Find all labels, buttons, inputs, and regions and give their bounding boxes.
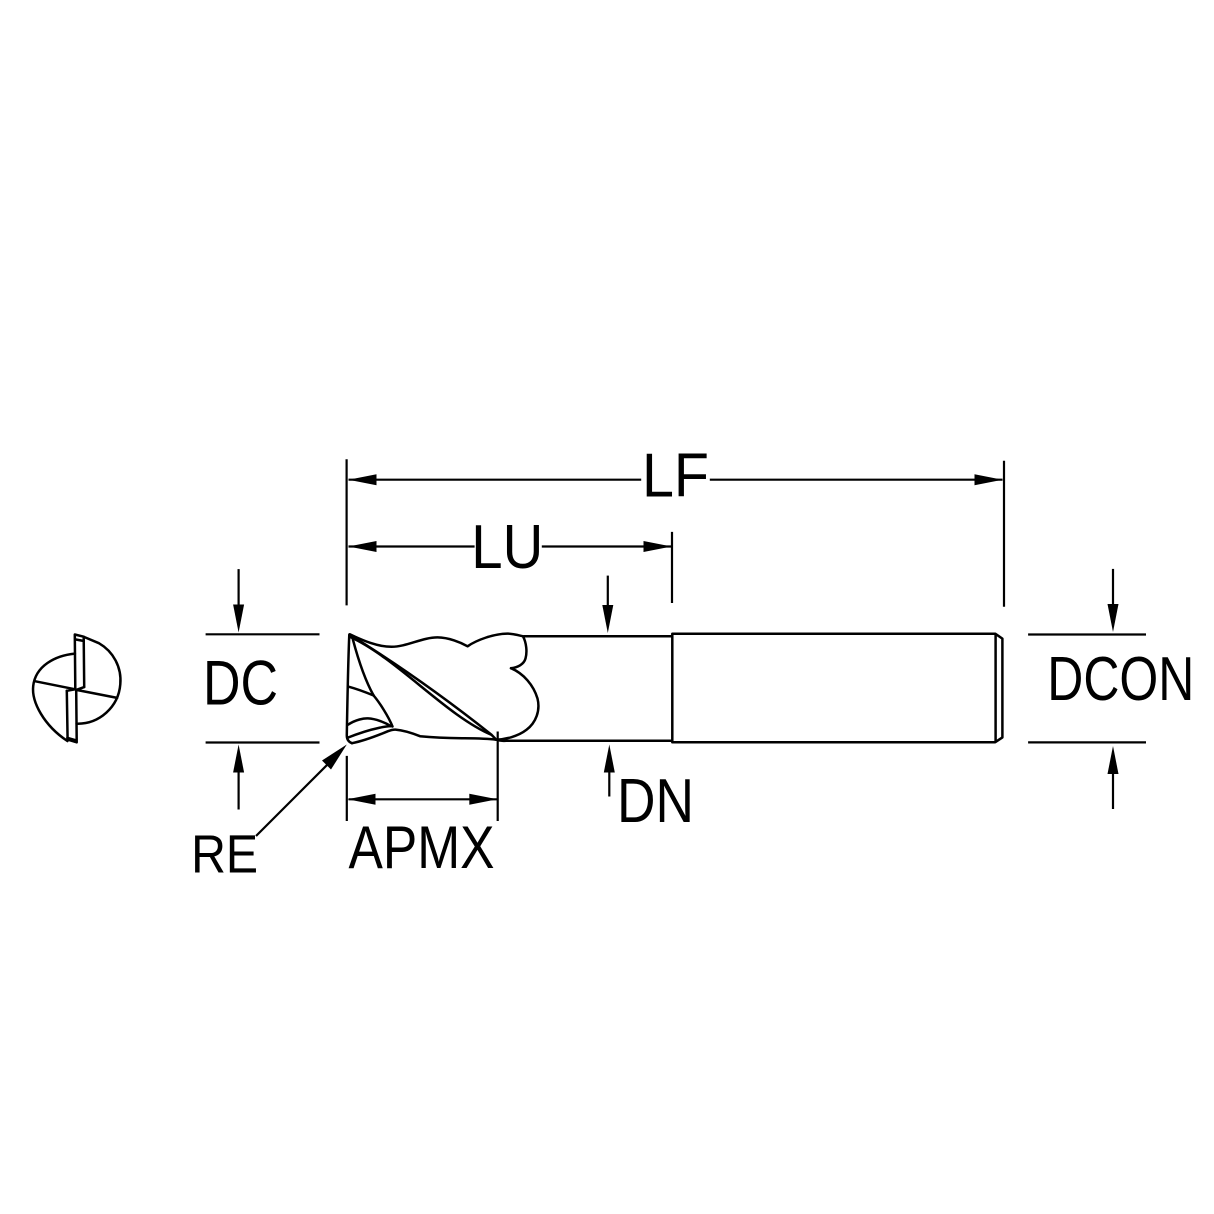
DN up arrow shaft xyxy=(608,771,610,797)
DCON top line xyxy=(1028,633,1146,635)
end view: lower land bar xyxy=(67,690,77,743)
cutter left edge with corner radius xyxy=(347,635,352,744)
end face line A xyxy=(349,687,374,696)
DC up arrowhead xyxy=(233,745,244,773)
LU left arrowhead xyxy=(349,541,377,552)
svg-text:DC: DC xyxy=(203,648,278,718)
LF left extension line xyxy=(346,459,348,605)
APMX dimension line xyxy=(349,798,498,800)
APMX right arrowhead xyxy=(469,794,497,805)
DC top line xyxy=(206,633,320,635)
shank outline xyxy=(672,634,1002,743)
DC down arrowhead xyxy=(233,605,244,633)
lens lower line xyxy=(347,726,391,738)
DCON bottom line xyxy=(1028,741,1146,743)
LF right extension line xyxy=(1003,461,1005,607)
RE leader line xyxy=(256,754,338,836)
neck bottom line xyxy=(496,740,671,741)
cheek curve of flute land xyxy=(496,668,538,740)
DCON up arrowhead xyxy=(1108,746,1119,774)
flute valley line B xyxy=(353,640,374,696)
svg-text:RE: RE xyxy=(191,826,258,885)
helical cutting edge upper line xyxy=(350,635,491,735)
LF left arrowhead xyxy=(349,474,377,485)
end view: right arc xyxy=(77,637,121,724)
svg-text:LU: LU xyxy=(471,512,543,582)
end view: left arc xyxy=(33,654,75,741)
APMX left extension line xyxy=(346,756,348,821)
svg-text:APMX: APMX xyxy=(349,813,495,881)
DN down arrow shaft xyxy=(607,576,609,606)
svg-text:DN: DN xyxy=(617,767,694,836)
end view: upper land bar xyxy=(75,635,84,690)
DCON up arrow shaft xyxy=(1112,772,1114,809)
flute petal right edge xyxy=(511,636,526,668)
cutter top silhouette (two humps) xyxy=(350,634,523,647)
LU dimension line xyxy=(349,545,672,547)
APMX left arrowhead xyxy=(348,794,376,805)
DN down arrowhead xyxy=(602,605,613,633)
neck top line xyxy=(524,635,671,638)
DC down arrow shaft xyxy=(238,569,240,605)
end view: middle connectors xyxy=(67,687,84,691)
LU right extension line xyxy=(671,532,673,603)
gash line from J1 to lens tip xyxy=(374,696,393,727)
DCON down arrow shaft xyxy=(1112,569,1114,605)
LU right arrowhead xyxy=(644,541,672,552)
DC up arrow shaft xyxy=(238,772,240,810)
cutter bottom silhouette xyxy=(352,730,496,744)
APMX right extension line xyxy=(497,732,499,822)
DN up arrowhead xyxy=(604,745,615,773)
svg-text:DCON: DCON xyxy=(1047,644,1194,714)
end view: right face line xyxy=(76,690,117,698)
shank end inner line xyxy=(994,635,997,742)
LF dimension line xyxy=(349,479,1003,481)
end view: left face line xyxy=(35,681,76,689)
LF right arrowhead xyxy=(975,474,1003,485)
DC bottom line xyxy=(206,741,320,743)
helical cutting edge lower line xyxy=(351,637,497,739)
RE leader arrowhead xyxy=(322,745,347,770)
svg-text:LF: LF xyxy=(642,441,709,511)
DCON down arrowhead xyxy=(1108,604,1119,632)
lens upper line xyxy=(348,718,391,726)
